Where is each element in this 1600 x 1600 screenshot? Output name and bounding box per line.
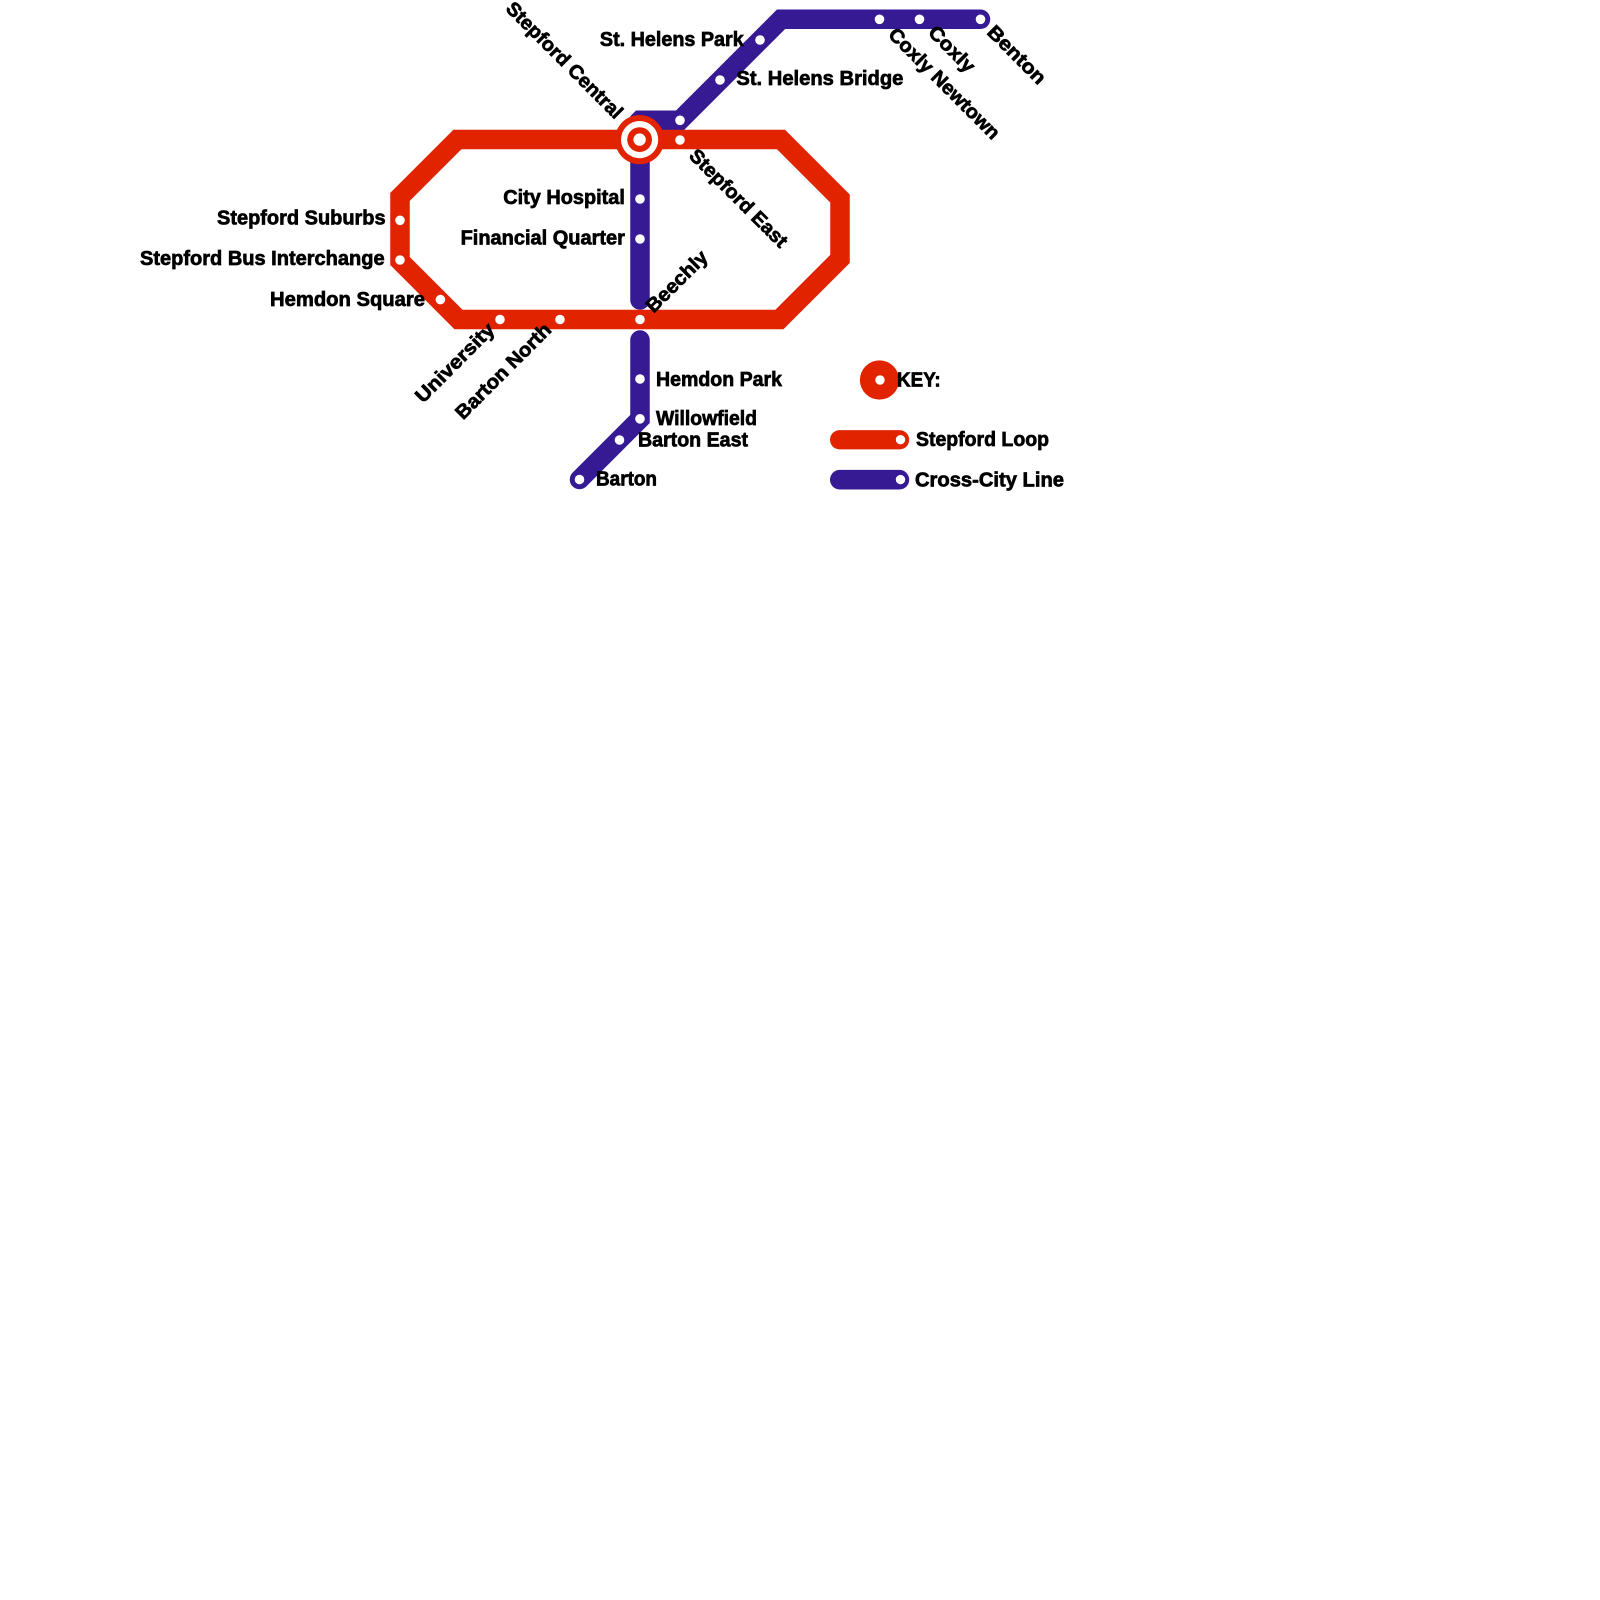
svg-text:St. Helens Bridge: St. Helens Bridge bbox=[736, 68, 903, 90]
svg-text:Financial Quarter: Financial Quarter bbox=[461, 227, 626, 249]
svg-text:Hemdon Square: Hemdon Square bbox=[270, 289, 425, 311]
svg-text:St. Helens Park: St. Helens Park bbox=[600, 29, 745, 51]
svg-text:Hemdon Park: Hemdon Park bbox=[656, 369, 783, 391]
svg-text:Cross-City Line: Cross-City Line bbox=[915, 469, 1064, 491]
svg-text:Willowfield: Willowfield bbox=[656, 408, 757, 430]
svg-text:Barton East: Barton East bbox=[638, 429, 748, 451]
svg-text:Barton: Barton bbox=[596, 469, 657, 491]
svg-text:Stepford Loop: Stepford Loop bbox=[916, 429, 1049, 451]
svg-text:Stepford Suburbs: Stepford Suburbs bbox=[217, 208, 386, 230]
svg-text:City Hospital: City Hospital bbox=[503, 187, 625, 209]
svg-text:KEY:: KEY: bbox=[897, 369, 941, 391]
svg-text:Stepford Bus Interchange: Stepford Bus Interchange bbox=[140, 248, 385, 270]
